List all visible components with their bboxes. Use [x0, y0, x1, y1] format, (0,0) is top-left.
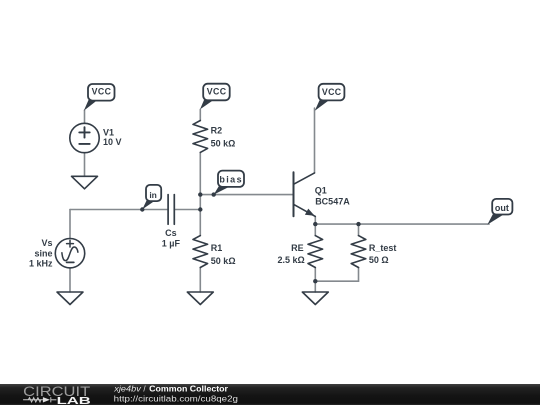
svg-text:R_test: R_test: [369, 243, 397, 253]
svg-text:1 µF: 1 µF: [162, 239, 181, 249]
svg-text:in: in: [149, 190, 157, 200]
svg-text:50 kΩ: 50 kΩ: [211, 139, 236, 149]
svg-text:V1: V1: [103, 127, 114, 137]
svg-text:VCC: VCC: [92, 87, 112, 97]
svg-text:bias: bias: [219, 175, 241, 185]
svg-text:out: out: [495, 203, 509, 213]
svg-text:Cs: Cs: [165, 228, 177, 238]
svg-text:sine: sine: [34, 248, 52, 258]
svg-text:Vs: Vs: [41, 238, 52, 248]
svg-text:http://circuitlab.com/cu8qe2g: http://circuitlab.com/cu8qe2g: [114, 394, 238, 403]
svg-text:Common Collector: Common Collector: [149, 384, 228, 393]
svg-text:Q1: Q1: [315, 185, 327, 195]
svg-text:LAB: LAB: [57, 396, 92, 405]
svg-text:50 kΩ: 50 kΩ: [211, 256, 236, 266]
svg-text:BC547A: BC547A: [315, 197, 350, 207]
svg-text:2.5 kΩ: 2.5 kΩ: [277, 255, 304, 265]
svg-text:R2: R2: [211, 125, 223, 135]
svg-text:RE: RE: [291, 243, 304, 253]
svg-text:50 Ω: 50 Ω: [369, 255, 389, 265]
svg-text:1 kHz: 1 kHz: [29, 259, 53, 269]
svg-text:VCC: VCC: [322, 87, 342, 97]
svg-text:xje4bv: xje4bv: [113, 384, 142, 393]
svg-text:VCC: VCC: [207, 87, 227, 97]
svg-text:R1: R1: [211, 243, 223, 253]
svg-text:10 V: 10 V: [103, 137, 122, 147]
